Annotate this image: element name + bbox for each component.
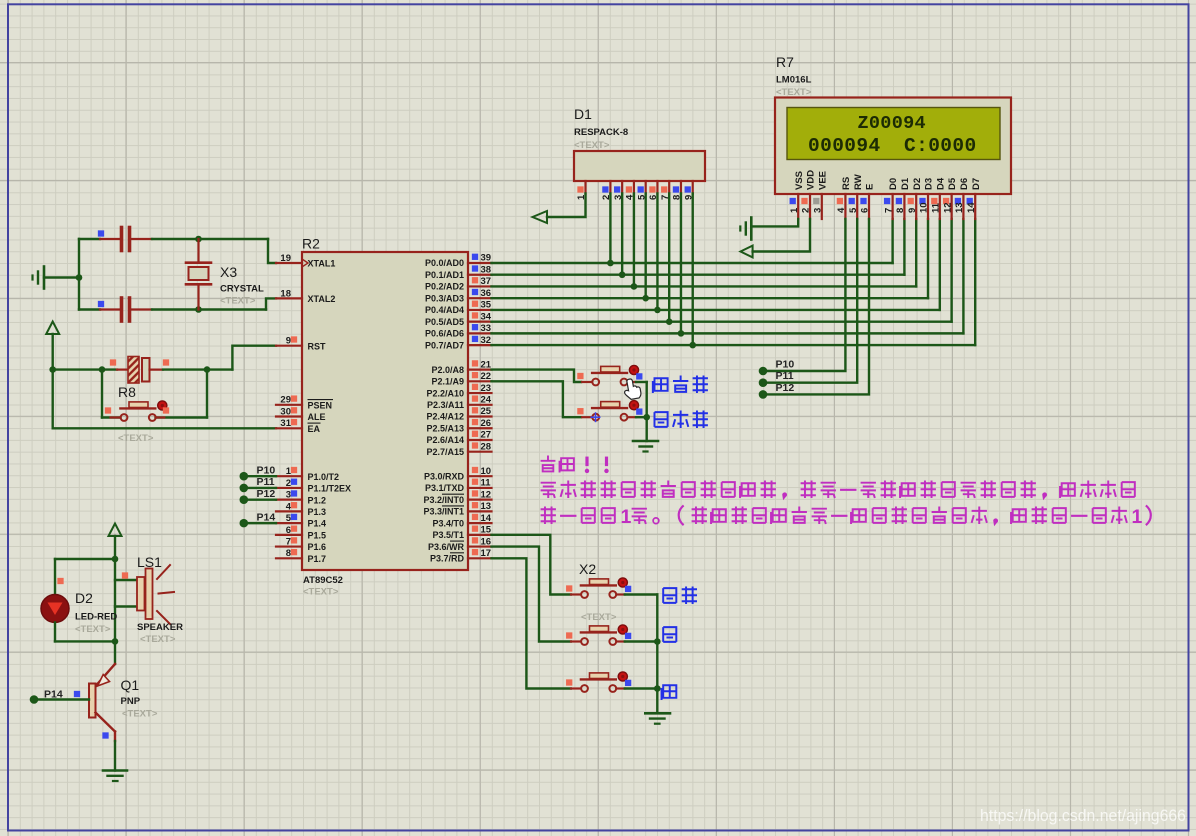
svg-text:1: 1 (621, 506, 632, 528)
svg-text:P12: P12 (776, 382, 795, 394)
svg-text:P3.4/T0: P3.4/T0 (432, 518, 464, 528)
svg-text:P12: P12 (257, 488, 276, 500)
svg-text:RESPACK-8: RESPACK-8 (574, 127, 628, 138)
svg-text:10: 10 (481, 466, 492, 477)
svg-text:EA: EA (308, 424, 321, 434)
svg-text:8: 8 (895, 208, 906, 213)
svg-text:2: 2 (286, 478, 291, 489)
svg-text:D1: D1 (574, 106, 592, 122)
svg-text:1: 1 (789, 207, 800, 213)
svg-text:29: 29 (280, 395, 291, 406)
svg-text:6: 6 (860, 208, 871, 213)
svg-text:P3.7/RD: P3.7/RD (430, 554, 465, 564)
svg-text:XTAL2: XTAL2 (308, 294, 336, 304)
svg-text:P3.2/INT0: P3.2/INT0 (423, 495, 464, 505)
svg-text:P3.1/TXD: P3.1/TXD (425, 483, 465, 493)
svg-text:27: 27 (481, 430, 492, 441)
svg-text:22: 22 (481, 371, 492, 382)
svg-text:18: 18 (280, 288, 291, 299)
svg-text:Q1: Q1 (121, 677, 140, 693)
svg-text:9: 9 (907, 208, 918, 213)
svg-text:P11: P11 (776, 370, 794, 382)
svg-text:P0.0/AD0: P0.0/AD0 (425, 258, 464, 268)
svg-text:14: 14 (966, 202, 977, 213)
svg-text:<TEXT>: <TEXT> (574, 140, 610, 151)
svg-text:7: 7 (286, 536, 291, 547)
svg-text:P2.6/A14: P2.6/A14 (426, 435, 464, 445)
svg-text:<TEXT>: <TEXT> (140, 634, 176, 645)
svg-text:32: 32 (481, 335, 492, 346)
svg-text:6: 6 (286, 525, 291, 536)
svg-text:8: 8 (286, 548, 291, 559)
svg-text:5: 5 (848, 207, 859, 213)
svg-text:P3.5/T1: P3.5/T1 (432, 530, 464, 540)
svg-text:P10: P10 (776, 359, 795, 371)
svg-text:31: 31 (280, 418, 291, 429)
svg-text:13: 13 (954, 202, 965, 213)
svg-text:14: 14 (481, 513, 492, 524)
svg-text:12: 12 (481, 489, 492, 500)
svg-text:P0.5/AD5: P0.5/AD5 (425, 317, 464, 327)
svg-text:CRYSTAL: CRYSTAL (220, 284, 264, 295)
svg-text:P0.3/AD3: P0.3/AD3 (425, 293, 464, 303)
svg-text:P1.4: P1.4 (308, 519, 327, 529)
svg-text:P0.7/AD7: P0.7/AD7 (425, 340, 464, 350)
svg-text:24: 24 (481, 394, 492, 405)
svg-text:P1.6: P1.6 (308, 542, 327, 552)
svg-text:P2.1/A9: P2.1/A9 (431, 377, 464, 387)
svg-text:39: 39 (481, 253, 492, 264)
svg-text:<TEXT>: <TEXT> (118, 433, 154, 444)
svg-text:X2: X2 (579, 561, 596, 577)
svg-text:16: 16 (481, 536, 492, 547)
svg-text:P11: P11 (257, 476, 275, 488)
svg-text:VSS: VSS (794, 171, 805, 190)
svg-text:13: 13 (481, 501, 492, 512)
svg-text:AT89C52: AT89C52 (303, 575, 343, 586)
svg-text:D7: D7 (971, 178, 982, 190)
svg-text:5: 5 (286, 513, 292, 524)
svg-text:37: 37 (481, 276, 492, 287)
svg-text:11: 11 (481, 478, 492, 489)
svg-text:<TEXT>: <TEXT> (581, 612, 617, 623)
svg-text:<TEXT>: <TEXT> (122, 709, 158, 720)
svg-text:RW: RW (853, 174, 864, 190)
svg-text:P2.0/A8: P2.0/A8 (431, 365, 464, 375)
svg-text:34: 34 (481, 311, 492, 322)
svg-text:P3.6/WR: P3.6/WR (428, 542, 465, 552)
svg-text:19: 19 (280, 253, 291, 264)
svg-text:R8: R8 (118, 384, 136, 400)
svg-text:P10: P10 (257, 464, 276, 476)
svg-text:LED-RED: LED-RED (75, 612, 117, 623)
svg-text:<TEXT>: <TEXT> (75, 624, 111, 635)
svg-text:P3.0/RXD: P3.0/RXD (424, 471, 465, 481)
svg-text:P14: P14 (44, 689, 63, 701)
svg-text:P2.2/A10: P2.2/A10 (426, 388, 464, 398)
svg-text:SPEAKER: SPEAKER (137, 622, 183, 633)
svg-text:23: 23 (481, 383, 492, 394)
svg-text:P1.2: P1.2 (308, 495, 327, 505)
svg-text:P0.1/AD1: P0.1/AD1 (425, 270, 464, 280)
svg-text:PNP: PNP (121, 696, 141, 707)
svg-text:21: 21 (481, 359, 492, 370)
svg-text:https://blog.csdn.net/ajing666: https://blog.csdn.net/ajing666 (980, 806, 1186, 825)
svg-text:RS: RS (841, 177, 852, 190)
svg-text:C:0000: C:0000 (904, 135, 977, 157)
svg-text:Z00094: Z00094 (858, 113, 926, 134)
svg-text:D4: D4 (935, 177, 946, 190)
svg-text:R2: R2 (302, 236, 320, 252)
svg-text:4: 4 (836, 207, 847, 213)
svg-text:<TEXT>: <TEXT> (776, 87, 812, 98)
svg-text:PSEN: PSEN (308, 400, 333, 410)
svg-text:17: 17 (481, 548, 492, 559)
svg-text:LS1: LS1 (137, 554, 162, 570)
svg-text:D1: D1 (900, 177, 911, 190)
svg-text:35: 35 (481, 300, 492, 311)
svg-text:11: 11 (931, 202, 942, 213)
svg-text:26: 26 (481, 418, 492, 429)
svg-text:P0.4/AD4: P0.4/AD4 (425, 305, 464, 315)
svg-text:R7: R7 (776, 54, 794, 70)
svg-text:P2.7/A15: P2.7/A15 (426, 447, 464, 457)
svg-text:P14: P14 (257, 511, 276, 523)
svg-text:33: 33 (481, 323, 492, 334)
svg-text:36: 36 (481, 288, 492, 299)
svg-text:12: 12 (942, 202, 953, 213)
svg-text:P2.4/A12: P2.4/A12 (426, 412, 464, 422)
svg-text:D3: D3 (924, 178, 935, 190)
svg-text:28: 28 (481, 441, 492, 452)
svg-text:D6: D6 (959, 178, 970, 190)
svg-text:25: 25 (481, 406, 492, 417)
svg-text:LM016L: LM016L (776, 75, 812, 86)
svg-text:P1.7: P1.7 (308, 554, 327, 564)
svg-text:ALE: ALE (308, 412, 326, 422)
svg-text:38: 38 (481, 264, 492, 275)
svg-text:VEE: VEE (817, 171, 828, 190)
svg-text:XTAL1: XTAL1 (308, 259, 336, 269)
svg-text:P1.3: P1.3 (308, 507, 327, 517)
svg-text:000094: 000094 (808, 135, 881, 157)
svg-text:7: 7 (883, 208, 894, 213)
svg-text:VDD: VDD (806, 170, 817, 190)
svg-text:<TEXT>: <TEXT> (220, 296, 256, 307)
svg-text:1: 1 (286, 466, 292, 477)
svg-text:X3: X3 (220, 264, 237, 280)
svg-text:D2: D2 (75, 590, 93, 606)
svg-text:2: 2 (801, 208, 812, 213)
svg-text:10: 10 (919, 202, 930, 213)
svg-text:P1.5: P1.5 (308, 530, 327, 540)
svg-text:3: 3 (813, 208, 824, 213)
svg-text:P3.3/INT1: P3.3/INT1 (423, 507, 464, 517)
svg-text:P0.2/AD2: P0.2/AD2 (425, 282, 464, 292)
svg-text:9: 9 (286, 336, 291, 347)
svg-text:15: 15 (481, 525, 492, 536)
svg-text:P1.0/T2: P1.0/T2 (308, 472, 340, 482)
svg-text:RST: RST (308, 341, 327, 351)
svg-text:D5: D5 (947, 177, 958, 190)
svg-text:D2: D2 (912, 178, 923, 190)
svg-text:E: E (865, 184, 876, 190)
svg-text:<TEXT>: <TEXT> (303, 587, 339, 598)
svg-text:30: 30 (280, 406, 291, 417)
svg-text:3: 3 (286, 490, 291, 501)
svg-text:P0.6/AD6: P0.6/AD6 (425, 329, 464, 339)
svg-text:4: 4 (286, 501, 292, 512)
svg-text:1: 1 (1132, 506, 1143, 528)
svg-text:P1.1/T2EX: P1.1/T2EX (308, 484, 352, 494)
svg-text:P2.3/A11: P2.3/A11 (427, 400, 464, 410)
svg-text:P2.5/A13: P2.5/A13 (426, 423, 464, 433)
svg-text:D0: D0 (888, 178, 899, 190)
